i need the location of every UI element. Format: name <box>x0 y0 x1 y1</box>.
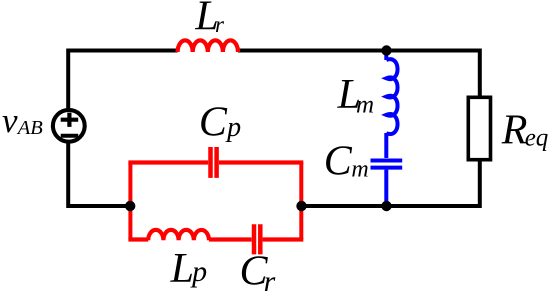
svg-text:v: v <box>2 101 18 140</box>
wire top-right: L_r to resistor top <box>238 51 480 98</box>
svg-text:C: C <box>324 138 353 184</box>
junction dot node A <box>125 201 135 211</box>
svg-text:L: L <box>170 246 194 291</box>
svg-text:r: r <box>264 265 276 291</box>
blue branch top stub <box>384 51 388 61</box>
wire bottom-right: node B to resistor bottom <box>301 161 480 207</box>
inductor L_m (blue, vertical loops) <box>386 59 397 134</box>
wire bottom-left: source bottom to node A <box>68 143 130 207</box>
capacitor C_m plates <box>371 161 403 168</box>
red tank right side <box>299 163 303 240</box>
red tank top wire with gap for C_p <box>128 160 303 164</box>
blue wire loops to C_m <box>384 133 388 158</box>
svg-text:p: p <box>225 112 241 143</box>
junction dot top (node at L_m top) <box>381 45 391 55</box>
svg-text:C: C <box>199 99 228 145</box>
svg-text:r: r <box>215 12 225 37</box>
svg-text:p: p <box>190 255 207 288</box>
junction dot C_m bottom <box>381 201 391 211</box>
red tank left side <box>128 163 132 240</box>
wire top-left: source top to L_r <box>68 51 177 111</box>
capacitor C_p plates <box>211 147 217 178</box>
svg-text:eq: eq <box>525 125 549 152</box>
capacitor C_r plates <box>254 224 260 254</box>
junction dot node B <box>296 201 306 211</box>
blue wire C_m to bottom <box>384 170 388 206</box>
svg-text:m: m <box>351 157 368 183</box>
plus sign <box>61 113 78 127</box>
minus sign <box>61 134 78 138</box>
red tank bottom wire segments <box>128 237 303 241</box>
voltage source v_AB circle <box>53 110 85 142</box>
svg-text:AB: AB <box>16 117 44 139</box>
inductor L_p (red, 4 humps) <box>148 230 209 240</box>
svg-text:R: R <box>501 107 528 153</box>
inductor L_r (red, 4 humps) <box>178 40 238 52</box>
svg-text:m: m <box>356 92 374 119</box>
resistor R_eq <box>468 97 490 159</box>
